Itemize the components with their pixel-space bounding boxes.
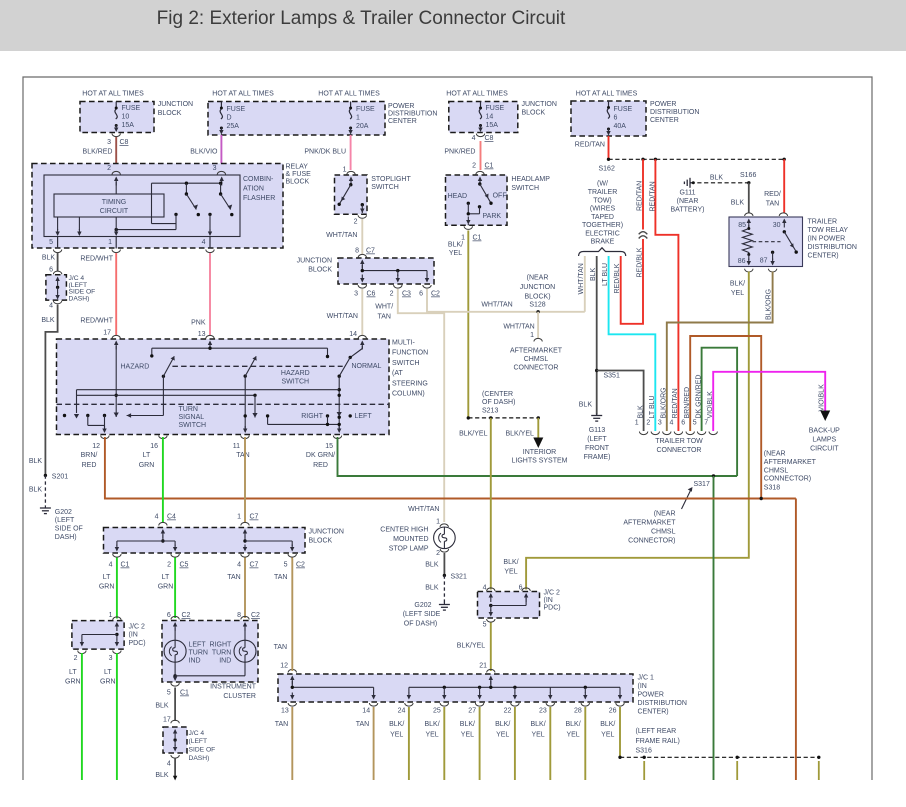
svg-text:S128: S128 <box>529 302 545 309</box>
svg-text:(LEFT: (LEFT <box>587 436 607 443</box>
svg-text:SWITCH: SWITCH <box>179 422 207 429</box>
svg-text:4: 4 <box>155 514 159 521</box>
svg-text:C1: C1 <box>485 163 494 170</box>
svg-text:15A: 15A <box>122 122 135 129</box>
svg-text:(LEFT: (LEFT <box>55 517 75 524</box>
svg-text:3: 3 <box>107 139 111 146</box>
svg-text:WHT/TAN: WHT/TAN <box>326 232 357 239</box>
svg-text:S201: S201 <box>52 474 68 481</box>
svg-text:BLK/: BLK/ <box>503 559 518 566</box>
svg-text:BLK: BLK <box>579 402 593 409</box>
svg-text:TRAILER TOW: TRAILER TOW <box>655 438 703 445</box>
svg-text:C5: C5 <box>180 562 189 569</box>
svg-text:5: 5 <box>284 562 288 569</box>
svg-text:FUSE: FUSE <box>122 105 141 112</box>
svg-text:(WIRES: (WIRES <box>590 206 616 213</box>
svg-text:(NEAR: (NEAR <box>527 275 549 282</box>
svg-text:RED/WHT: RED/WHT <box>80 318 113 325</box>
svg-text:LIGHTS SYSTEM: LIGHTS SYSTEM <box>511 458 567 465</box>
svg-text:LT: LT <box>162 574 170 581</box>
svg-text:WHT/TAN: WHT/TAN <box>327 313 358 320</box>
svg-text:SWITCH: SWITCH <box>511 185 539 192</box>
svg-text:(LEFT SIDE: (LEFT SIDE <box>403 611 441 618</box>
svg-text:BLK/ORG: BLK/ORG <box>661 387 668 418</box>
svg-text:FUNCTION: FUNCTION <box>392 350 428 357</box>
svg-text:FUSE: FUSE <box>356 106 375 113</box>
svg-text:SWITCH: SWITCH <box>392 360 420 367</box>
svg-text:TOW RELAY: TOW RELAY <box>808 227 849 234</box>
svg-text:C1: C1 <box>180 690 189 697</box>
svg-text:HOT AT ALL TIMES: HOT AT ALL TIMES <box>318 90 380 97</box>
svg-text:4: 4 <box>167 761 171 768</box>
svg-text:6: 6 <box>419 291 423 298</box>
svg-text:BLOCK: BLOCK <box>286 179 310 186</box>
svg-text:S213: S213 <box>482 408 498 415</box>
svg-text:DISTRIBUTION: DISTRIBUTION <box>638 700 687 707</box>
svg-text:86: 86 <box>738 258 746 265</box>
svg-text:JUNCTION: JUNCTION <box>297 258 332 265</box>
svg-text:J/C 2: J/C 2 <box>129 624 145 631</box>
svg-text:VIO\BLK: VIO\BLK <box>819 384 826 412</box>
svg-text:INTERIOR: INTERIOR <box>523 449 556 456</box>
svg-text:YEL: YEL <box>425 732 438 739</box>
svg-text:& FUSE: & FUSE <box>286 171 312 178</box>
svg-text:CONNECTOR: CONNECTOR <box>514 365 559 372</box>
svg-text:CONNECTOR): CONNECTOR) <box>628 538 675 545</box>
svg-text:PNK: PNK <box>191 320 206 327</box>
svg-text:C7: C7 <box>250 562 259 569</box>
svg-text:AFTERMARKET: AFTERMARKET <box>764 459 817 466</box>
svg-text:BLK/YEL: BLK/YEL <box>459 431 488 438</box>
svg-text:GRN: GRN <box>158 584 174 591</box>
svg-text:CENTER): CENTER) <box>638 709 669 716</box>
svg-text:J/C 1: J/C 1 <box>638 675 654 682</box>
svg-text:DISTRIBUTION: DISTRIBUTION <box>650 109 699 116</box>
svg-text:TURN: TURN <box>179 406 198 413</box>
svg-text:STEERING: STEERING <box>392 380 428 387</box>
svg-text:G111: G111 <box>679 190 695 197</box>
svg-text:23: 23 <box>539 708 547 715</box>
svg-text:CHMSL: CHMSL <box>524 356 549 363</box>
svg-text:COLUMN): COLUMN) <box>392 391 425 398</box>
svg-text:YEL: YEL <box>731 290 744 297</box>
svg-text:WHT/TAN: WHT/TAN <box>578 263 585 294</box>
svg-text:G113: G113 <box>589 427 606 434</box>
svg-text:JUNCTION: JUNCTION <box>520 284 555 291</box>
svg-text:DASH): DASH) <box>69 295 90 302</box>
svg-text:STOPLIGHT: STOPLIGHT <box>371 176 411 183</box>
svg-text:HOT AT ALL TIMES: HOT AT ALL TIMES <box>82 90 144 97</box>
svg-text:(IN: (IN <box>129 632 138 639</box>
svg-text:CENTER: CENTER <box>388 118 417 125</box>
svg-text:PNK/DK BLU: PNK/DK BLU <box>304 149 346 156</box>
svg-text:CHMSL: CHMSL <box>651 528 676 535</box>
svg-text:GRN: GRN <box>99 584 115 591</box>
svg-text:1: 1 <box>530 332 534 339</box>
svg-text:22: 22 <box>504 708 512 715</box>
svg-text:2: 2 <box>472 163 476 170</box>
svg-text:YEL: YEL <box>461 732 474 739</box>
svg-text:BLK: BLK <box>42 255 56 262</box>
svg-text:7: 7 <box>704 420 708 427</box>
svg-text:OF DASH): OF DASH) <box>482 399 515 406</box>
svg-text:LT: LT <box>104 669 112 676</box>
svg-text:20A: 20A <box>356 123 369 130</box>
svg-text:BLOCK: BLOCK <box>308 267 332 274</box>
svg-text:C7: C7 <box>250 514 259 521</box>
svg-text:6: 6 <box>681 420 685 427</box>
svg-text:RIGHT: RIGHT <box>301 413 324 420</box>
svg-text:COMBIN-: COMBIN- <box>243 176 274 183</box>
svg-text:BLK: BLK <box>637 405 644 419</box>
svg-text:(IN: (IN <box>638 683 647 690</box>
svg-text:25A: 25A <box>227 123 240 130</box>
svg-text:C2: C2 <box>296 562 305 569</box>
svg-text:30: 30 <box>773 222 781 229</box>
svg-text:4: 4 <box>237 562 241 569</box>
svg-text:JUNCTION: JUNCTION <box>309 529 344 536</box>
svg-text:STOP LAMP: STOP LAMP <box>389 546 429 553</box>
svg-text:26: 26 <box>609 708 617 715</box>
svg-text:RED/TAN: RED/TAN <box>575 142 605 149</box>
svg-text:WHT/TAN: WHT/TAN <box>503 324 534 331</box>
svg-text:(AT: (AT <box>392 370 403 377</box>
svg-text:BLK: BLK <box>155 703 169 710</box>
svg-text:CENTER): CENTER) <box>808 252 839 259</box>
svg-text:1: 1 <box>356 115 360 122</box>
svg-text:HEAD: HEAD <box>448 193 467 200</box>
svg-text:SWITCH: SWITCH <box>371 184 399 191</box>
svg-text:BLK: BLK <box>425 562 439 569</box>
svg-text:SIDE OF: SIDE OF <box>189 747 216 754</box>
svg-text:AFTERMARKET: AFTERMARKET <box>510 348 563 355</box>
svg-text:TOGETHER): TOGETHER) <box>582 222 623 229</box>
svg-text:13: 13 <box>281 708 289 715</box>
svg-text:GRN: GRN <box>139 462 155 469</box>
svg-text:C2: C2 <box>251 612 260 619</box>
svg-text:OFF: OFF <box>493 193 507 200</box>
svg-text:IND: IND <box>219 658 231 665</box>
svg-text:5: 5 <box>167 690 171 697</box>
svg-text:HOT AT ALL TIMES: HOT AT ALL TIMES <box>212 90 274 97</box>
svg-text:4: 4 <box>49 303 53 310</box>
svg-text:C1: C1 <box>121 562 130 569</box>
svg-text:85: 85 <box>738 222 746 229</box>
svg-text:POWER: POWER <box>650 101 676 108</box>
svg-text:HOT AT ALL TIMES: HOT AT ALL TIMES <box>446 90 508 97</box>
svg-text:PDC): PDC) <box>129 640 146 647</box>
svg-text:FRAME RAIL): FRAME RAIL) <box>636 738 680 745</box>
svg-text:40A: 40A <box>614 123 627 130</box>
svg-text:RELAY: RELAY <box>286 164 309 171</box>
svg-text:C3: C3 <box>402 291 411 298</box>
svg-text:1: 1 <box>109 612 113 619</box>
svg-text:BLK: BLK <box>590 267 597 281</box>
svg-text:BLK/: BLK/ <box>730 281 745 288</box>
svg-text:27: 27 <box>468 708 476 715</box>
svg-text:S321: S321 <box>451 574 467 581</box>
svg-text:2: 2 <box>646 420 650 427</box>
svg-text:TAN: TAN <box>236 452 249 459</box>
svg-text:S162: S162 <box>599 166 615 173</box>
svg-text:RED/BLK: RED/BLK <box>637 247 644 277</box>
svg-text:2: 2 <box>74 655 78 662</box>
svg-text:CENTER HIGH: CENTER HIGH <box>380 527 428 534</box>
svg-text:YEL: YEL <box>496 732 509 739</box>
svg-text:1: 1 <box>343 167 347 174</box>
svg-text:S318: S318 <box>764 485 780 492</box>
svg-text:RED/TAN: RED/TAN <box>636 181 643 211</box>
svg-text:3: 3 <box>213 165 217 172</box>
svg-text:MULTI-: MULTI- <box>392 340 415 347</box>
svg-text:LT: LT <box>143 452 151 459</box>
svg-text:BLK/: BLK/ <box>600 721 615 728</box>
svg-text:RED: RED <box>313 462 328 469</box>
svg-text:5: 5 <box>49 239 53 246</box>
svg-text:RED/: RED/ <box>764 191 781 198</box>
svg-text:JUNCTION: JUNCTION <box>158 101 193 108</box>
svg-text:24: 24 <box>398 708 406 715</box>
svg-text:FRONT: FRONT <box>585 445 610 452</box>
svg-text:CONNECTOR): CONNECTOR) <box>764 476 811 483</box>
svg-text:RIGHT: RIGHT <box>210 642 233 649</box>
svg-text:RED/WHT: RED/WHT <box>80 256 113 263</box>
svg-text:LAMPS: LAMPS <box>812 437 836 444</box>
svg-text:C2: C2 <box>431 291 440 298</box>
svg-text:PDC): PDC) <box>544 605 561 612</box>
svg-text:RED/BLK: RED/BLK <box>614 263 621 293</box>
svg-text:16: 16 <box>150 443 158 450</box>
svg-text:LT: LT <box>103 574 111 581</box>
svg-text:CIRCUIT: CIRCUIT <box>100 208 129 215</box>
svg-text:BLK/: BLK/ <box>425 721 440 728</box>
svg-text:LT: LT <box>69 669 77 676</box>
svg-text:4: 4 <box>483 585 487 592</box>
svg-text:1: 1 <box>237 514 241 521</box>
svg-text:HEADLAMP: HEADLAMP <box>511 176 550 183</box>
svg-text:BLK/YEL: BLK/YEL <box>505 431 534 438</box>
svg-text:TAPED: TAPED <box>591 214 614 221</box>
svg-text:BLK: BLK <box>41 317 55 324</box>
svg-text:LT BLU: LT BLU <box>602 263 609 286</box>
svg-text:28: 28 <box>574 708 582 715</box>
svg-text:S317: S317 <box>694 481 710 488</box>
svg-text:FLASHER: FLASHER <box>243 195 275 202</box>
svg-text:WHT/TAN: WHT/TAN <box>408 506 439 513</box>
svg-text:1: 1 <box>461 235 465 242</box>
svg-text:(IN: (IN <box>544 597 553 604</box>
svg-text:TAN: TAN <box>377 314 390 321</box>
svg-text:BLK/VIO: BLK/VIO <box>190 149 218 156</box>
svg-text:ATION: ATION <box>243 186 264 193</box>
svg-text:10: 10 <box>122 114 130 121</box>
svg-text:6: 6 <box>49 267 53 274</box>
svg-text:5: 5 <box>483 622 487 629</box>
svg-text:4: 4 <box>109 562 113 569</box>
svg-text:IND: IND <box>189 658 201 665</box>
svg-text:TAN: TAN <box>275 721 288 728</box>
svg-text:4: 4 <box>202 239 206 246</box>
svg-text:MOUNTED: MOUNTED <box>393 536 428 543</box>
svg-text:87: 87 <box>760 258 768 265</box>
svg-text:LT BLU: LT BLU <box>649 395 656 418</box>
svg-text:J/C 4: J/C 4 <box>189 730 205 737</box>
svg-text:C7: C7 <box>366 248 375 255</box>
svg-text:BLK/: BLK/ <box>460 721 475 728</box>
svg-text:14: 14 <box>349 331 357 338</box>
svg-text:4: 4 <box>669 420 673 427</box>
svg-text:2: 2 <box>167 562 171 569</box>
svg-text:OF DASH): OF DASH) <box>404 621 437 628</box>
svg-text:5: 5 <box>693 420 697 427</box>
svg-text:FUSE: FUSE <box>486 105 505 112</box>
svg-text:(NEAR: (NEAR <box>764 451 786 458</box>
svg-text:Fig 2: Exterior Lamps & Traile: Fig 2: Exterior Lamps & Trailer Connecto… <box>157 8 566 29</box>
svg-text:14: 14 <box>486 114 494 121</box>
svg-text:BLK: BLK <box>155 772 169 779</box>
svg-text:2: 2 <box>390 291 394 298</box>
svg-text:BACK-UP: BACK-UP <box>809 428 840 435</box>
svg-text:BLK: BLK <box>425 585 439 592</box>
svg-text:(LEFT: (LEFT <box>189 738 208 745</box>
svg-text:PARK: PARK <box>483 213 502 220</box>
svg-text:BLK/ORG: BLK/ORG <box>766 289 773 320</box>
svg-text:BRAKE: BRAKE <box>591 239 615 246</box>
svg-text:TURN: TURN <box>212 650 231 657</box>
svg-text:YEL: YEL <box>566 732 579 739</box>
svg-text:YEL: YEL <box>531 732 544 739</box>
svg-text:BRN/: BRN/ <box>81 452 98 459</box>
svg-text:BLK/: BLK/ <box>389 721 404 728</box>
svg-text:(LEFT REAR: (LEFT REAR <box>636 728 677 735</box>
svg-text:BLK/: BLK/ <box>495 721 510 728</box>
svg-text:3: 3 <box>354 291 358 298</box>
svg-text:S166: S166 <box>740 172 756 179</box>
svg-text:SIDE OF: SIDE OF <box>55 526 83 533</box>
svg-text:2: 2 <box>107 165 111 172</box>
svg-text:CONNECTOR: CONNECTOR <box>657 447 702 454</box>
svg-text:BLK/YEL: BLK/YEL <box>457 643 486 650</box>
svg-text:WHT/: WHT/ <box>375 304 393 311</box>
svg-text:AFTERMARKET: AFTERMARKET <box>623 519 676 526</box>
svg-text:25: 25 <box>433 708 441 715</box>
svg-text:GRN: GRN <box>65 679 81 686</box>
svg-text:BLOCK: BLOCK <box>309 538 333 545</box>
svg-text:DASH): DASH) <box>55 534 77 541</box>
svg-text:13: 13 <box>198 331 206 338</box>
svg-text:BATTERY): BATTERY) <box>671 207 705 214</box>
svg-text:1: 1 <box>108 239 112 246</box>
svg-text:RED/TAN: RED/TAN <box>672 388 679 418</box>
svg-text:1: 1 <box>436 519 440 526</box>
svg-text:FRAME): FRAME) <box>584 454 611 461</box>
svg-text:12: 12 <box>280 663 288 670</box>
svg-text:TAN: TAN <box>766 201 779 208</box>
svg-text:PNK/RED: PNK/RED <box>444 149 475 156</box>
svg-text:15A: 15A <box>486 122 499 129</box>
svg-text:GRN: GRN <box>100 679 116 686</box>
svg-text:2: 2 <box>436 550 440 557</box>
svg-text:BLK/: BLK/ <box>531 721 546 728</box>
svg-text:S316: S316 <box>636 747 652 754</box>
svg-text:3: 3 <box>658 420 662 427</box>
svg-text:G202: G202 <box>414 602 431 609</box>
svg-text:INSTRUMENT: INSTRUMENT <box>210 684 257 691</box>
svg-text:CLUSTER: CLUSTER <box>223 693 256 700</box>
svg-text:TAN: TAN <box>227 574 240 581</box>
svg-text:(W/: (W/ <box>597 181 608 188</box>
svg-text:SWITCH: SWITCH <box>281 379 309 386</box>
svg-text:6: 6 <box>614 115 618 122</box>
svg-text:LEFT: LEFT <box>189 642 207 649</box>
svg-text:DASH): DASH) <box>189 755 210 762</box>
svg-text:BLK: BLK <box>29 458 43 465</box>
svg-text:TRAILER: TRAILER <box>588 189 618 196</box>
svg-text:C4: C4 <box>167 514 176 521</box>
svg-text:C8: C8 <box>485 135 494 142</box>
svg-text:RED: RED <box>82 462 97 469</box>
svg-text:D: D <box>227 115 232 122</box>
svg-text:21: 21 <box>479 663 487 670</box>
svg-text:17: 17 <box>103 330 111 337</box>
svg-text:HAZARD: HAZARD <box>281 370 310 377</box>
svg-text:17: 17 <box>163 717 171 724</box>
svg-text:BLK: BLK <box>29 487 43 494</box>
svg-text:TAN: TAN <box>356 721 369 728</box>
svg-text:BLK/: BLK/ <box>448 242 463 249</box>
svg-text:(IN POWER: (IN POWER <box>808 235 846 242</box>
svg-text:BLK/: BLK/ <box>566 721 581 728</box>
svg-text:(NEAR: (NEAR <box>677 198 699 205</box>
svg-text:CIRCUIT: CIRCUIT <box>810 446 839 453</box>
svg-text:JUNCTION: JUNCTION <box>522 101 557 108</box>
svg-text:12: 12 <box>92 443 100 450</box>
svg-text:BLOCK: BLOCK <box>522 110 546 117</box>
svg-text:DK GRN/: DK GRN/ <box>306 452 335 459</box>
svg-text:BLK/RED: BLK/RED <box>83 149 113 156</box>
svg-text:TURN: TURN <box>189 650 208 657</box>
svg-text:1: 1 <box>635 420 639 427</box>
svg-text:DISTRIBUTION: DISTRIBUTION <box>808 244 857 251</box>
svg-text:(CENTER: (CENTER <box>482 391 513 398</box>
svg-text:4: 4 <box>472 135 476 142</box>
svg-text:C1: C1 <box>473 235 482 242</box>
svg-text:POWER: POWER <box>638 692 664 699</box>
svg-text:BLK: BLK <box>710 175 724 182</box>
svg-text:TOW): TOW) <box>593 197 612 204</box>
svg-text:(NEAR: (NEAR <box>654 511 676 518</box>
svg-text:6: 6 <box>167 612 171 619</box>
svg-text:S351: S351 <box>604 373 620 380</box>
svg-text:TRAILER: TRAILER <box>808 219 838 226</box>
svg-text:TAN: TAN <box>274 574 287 581</box>
svg-text:FUSE: FUSE <box>614 106 633 113</box>
svg-text:HAZARD: HAZARD <box>121 363 150 370</box>
svg-text:WHT/TAN: WHT/TAN <box>481 302 512 309</box>
svg-text:J/C 2: J/C 2 <box>544 590 560 597</box>
svg-text:YEL: YEL <box>504 569 517 576</box>
svg-text:TAN: TAN <box>274 644 287 651</box>
svg-text:YEL: YEL <box>390 732 403 739</box>
svg-text:CHMSL: CHMSL <box>764 467 789 474</box>
svg-text:LEFT: LEFT <box>355 413 373 420</box>
svg-text:BLK: BLK <box>731 200 745 207</box>
svg-text:2: 2 <box>354 219 358 226</box>
svg-text:POWER: POWER <box>388 103 414 110</box>
svg-text:15: 15 <box>325 443 333 450</box>
svg-text:BLOCK: BLOCK <box>158 110 182 117</box>
svg-text:NORMAL: NORMAL <box>352 363 382 370</box>
